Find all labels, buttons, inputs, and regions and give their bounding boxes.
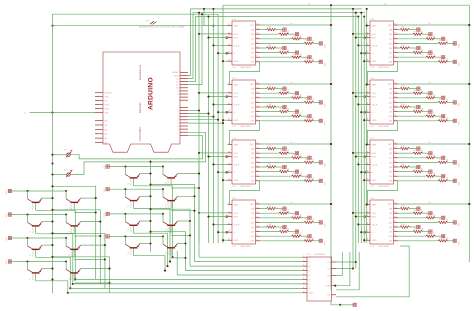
wire resistor to pad <box>410 208 417 210</box>
wire net RCK top bus <box>193 12 365 14</box>
resistor R74 value 220 <box>438 161 448 163</box>
wire T1 emitter to vertical <box>42 197 52 199</box>
resistor R78 value 220 <box>438 180 448 182</box>
svg-text:G: G <box>372 112 374 114</box>
wire S2 to arduino D0 <box>70 132 205 174</box>
resistor R13 value 220 <box>292 38 302 40</box>
wire IC8 QG to resistor <box>398 235 426 237</box>
pad LED2 <box>429 33 432 36</box>
wire resistor to pad <box>422 231 428 233</box>
svg-text:QB: QB <box>389 34 393 36</box>
wire IC6 VCC pin to rail <box>398 83 469 85</box>
pad LED3 <box>442 96 445 99</box>
transistor T15 <box>125 236 140 255</box>
resistor R46 value 220 <box>279 230 289 232</box>
transistor T16 <box>163 236 178 255</box>
wire IC6 QB to resistor <box>398 92 413 94</box>
svg-text:SCLR: SCLR <box>372 104 378 106</box>
svg-text:QH: QH <box>251 241 255 243</box>
svg-text:UNO R3/R2: UNO R3/R2 <box>138 127 142 141</box>
svg-text:BC337: BC337 <box>168 249 170 255</box>
wire resistor to pad <box>289 212 296 214</box>
wire resistor to pad <box>435 175 441 177</box>
wire IC2 QB to resistor <box>260 92 279 94</box>
wire T3 emitter to vertical <box>42 221 52 223</box>
svg-text:LED7: LED7 <box>104 213 106 218</box>
resistor R81 value 220 <box>400 207 410 209</box>
svg-text:QH: QH <box>389 62 393 64</box>
svg-text:SER: SER <box>372 205 377 207</box>
wire right bus vertical 4 <box>360 13 362 243</box>
wire IC3 QH to resistor <box>260 180 304 182</box>
wire T11 base run <box>134 209 171 262</box>
shift register IC1 right pins <box>250 24 260 64</box>
pad row input P1 <box>8 189 11 192</box>
pad LED2 <box>429 92 432 95</box>
pad LED4 <box>319 221 322 224</box>
wire T3 base run <box>36 234 73 284</box>
svg-text:QH*: QH* <box>388 84 392 86</box>
wire pad row 4 to transistors <box>12 261 66 263</box>
wire resistor to pad <box>410 166 417 168</box>
svg-text:G: G <box>372 232 374 234</box>
pad LED1 <box>283 147 286 150</box>
resistor R42 value 220 <box>279 212 289 214</box>
svg-text:BC337: BC337 <box>32 251 34 257</box>
resistor R23 value 220 <box>292 97 302 99</box>
wire right bus vertical 2 <box>355 13 357 269</box>
svg-text:BC337: BC337 <box>130 180 132 186</box>
resistor R48 value 220 <box>304 240 314 242</box>
wire IC3 QA to resistor <box>260 148 267 150</box>
shift register IC4 74HC595 body <box>232 200 256 244</box>
wire labelled alimentation net y25.7 <box>53 25 214 27</box>
wire IC3 VCC pin to rail <box>260 143 331 145</box>
resistor R12 value 220 <box>279 33 289 35</box>
svg-text:G: G <box>234 232 236 234</box>
svg-text:QB: QB <box>389 213 393 215</box>
pad row input P6 <box>106 188 109 191</box>
wire IC2 QC to resistor <box>260 97 292 99</box>
shift register IC5 74HC595 body <box>370 21 394 65</box>
svg-text:LED3: LED3 <box>6 237 8 242</box>
svg-text:SCLR: SCLR <box>372 164 378 166</box>
resistor R27 value 220 <box>292 115 302 117</box>
wire IC6 QG to resistor <box>398 115 426 117</box>
wire cascade IC3 QH* to IC4 SER <box>228 181 260 205</box>
svg-text:QH: QH <box>389 121 393 123</box>
svg-text:BC337: BC337 <box>71 251 73 257</box>
svg-text:RESET: RESET <box>105 93 113 95</box>
svg-text:Duemilanove: Duemilanove <box>138 64 142 80</box>
wire IC4 QE to resistor <box>260 226 267 228</box>
svg-text:QC: QC <box>389 39 393 41</box>
wire IC1 QH to resistor <box>260 61 304 63</box>
wire T11 emitter to vertical <box>140 195 151 197</box>
pad LED3 <box>442 37 445 40</box>
svg-text:BC337: BC337 <box>32 228 34 234</box>
wire IC1 QF to resistor <box>260 52 279 54</box>
svg-text:QH: QH <box>251 121 255 123</box>
pad LED7 <box>308 175 311 178</box>
resistor R51 value 220 <box>400 28 410 30</box>
junction bottom vertical main <box>51 278 53 280</box>
wire IC2 QE to resistor <box>260 106 267 108</box>
wire IC4 QG to resistor <box>260 235 292 237</box>
arduino U1 left pins lower analog <box>95 120 108 145</box>
wire IC8 VCC pin to rail <box>398 203 469 205</box>
wire resistor to pad <box>410 226 417 228</box>
wire row 5 upper line to bottom bus riser <box>151 162 200 257</box>
wire IC9 gnd pad <box>340 304 353 306</box>
wire resistor to pad <box>301 38 308 40</box>
resistor R22 value 220 <box>279 92 289 94</box>
svg-text:GND: GND <box>372 180 377 182</box>
wire left bus vertical G <box>217 14 219 243</box>
resistor R58 value 220 <box>438 61 448 63</box>
wire resistor to pad <box>410 29 417 31</box>
svg-text:SER: SER <box>234 26 239 28</box>
svg-text:74HC595N: 74HC595N <box>378 186 389 188</box>
wire resistor to pad <box>422 152 428 154</box>
svg-text:QD: QD <box>389 162 393 164</box>
svg-text:LED8: LED8 <box>104 235 106 240</box>
arduino U1 right pins upper <box>173 71 188 100</box>
svg-text:SCLR: SCLR <box>372 224 378 226</box>
svg-text:QC: QC <box>251 98 255 100</box>
pad LED3 <box>308 96 311 99</box>
svg-text:LED1: LED1 <box>6 190 8 195</box>
svg-text:QE: QE <box>251 107 255 109</box>
pad LED2 <box>295 92 298 95</box>
pad LED4 <box>319 42 322 45</box>
svg-text:QD: QD <box>389 222 393 224</box>
svg-text:SER: SER <box>234 85 239 87</box>
wire IC7 QG to resistor <box>398 175 426 177</box>
arduino U1 right pins lower <box>177 107 188 135</box>
svg-text:QA: QA <box>251 88 255 91</box>
svg-text:GND: GND <box>309 293 314 295</box>
wire T12 base run <box>171 210 194 212</box>
wire IC2 QF to resistor <box>260 111 279 113</box>
pad LED4 <box>453 161 456 164</box>
wire IC5 QD to resistor <box>398 42 438 44</box>
resistor R68 value 220 <box>438 120 448 122</box>
resistor R71 value 220 <box>400 147 410 149</box>
wire T4 base run <box>74 235 100 237</box>
wire IC4 QC to resistor <box>260 217 292 219</box>
svg-text:ALIMENTATION DE L’UC EN 5V PIN: ALIMENTATION DE L’UC EN 5V PIN 2 JAUNE <box>139 26 185 29</box>
resistor R15 value 220 <box>267 47 277 49</box>
svg-text:74HC595N: 74HC595N <box>240 246 251 248</box>
wire resistor to pad <box>422 171 428 173</box>
resistor R86 value 220 <box>413 230 423 232</box>
wire IC7 QH to resistor <box>398 180 438 182</box>
svg-text:BC337: BC337 <box>71 228 73 234</box>
transistor T12 <box>163 189 178 208</box>
wire cascade IC2 QH* to IC3 SER <box>228 121 260 145</box>
wire resistor to pad <box>448 240 453 242</box>
svg-text:QE: QE <box>251 48 255 50</box>
svg-text:LED5: LED5 <box>104 166 106 171</box>
pad LED5 <box>283 105 286 108</box>
resistor R41 value 220 <box>267 207 277 209</box>
wire IC3 QD to resistor <box>260 161 304 163</box>
wire resistor to pad <box>422 33 428 35</box>
wire resistor to pad <box>448 221 453 223</box>
wire arduino D7 to left bus <box>188 110 199 112</box>
resistor R32 value 220 <box>279 152 289 154</box>
wire resistor to pad <box>313 180 319 182</box>
wire S2 left <box>53 174 67 176</box>
svg-text:QD: QD <box>251 43 255 45</box>
wire resistor to pad <box>276 47 283 49</box>
svg-text:QH: QH <box>251 62 255 64</box>
wire pad row 2 to transistors <box>12 214 66 216</box>
svg-text:QE: QE <box>389 167 393 169</box>
shift register IC2 left pins <box>226 83 240 122</box>
svg-text:QG: QG <box>389 176 393 178</box>
wire IC1 QG to resistor <box>260 56 292 58</box>
wire resistor to pad <box>422 212 428 214</box>
svg-text:QH*: QH* <box>388 25 392 27</box>
wire left bus to IC pins <box>198 33 228 241</box>
wire resistor to pad <box>289 33 296 35</box>
svg-text:SER: SER <box>372 85 377 87</box>
shift register IC8 74HC595 body <box>370 200 394 244</box>
pad LED8 <box>319 239 322 242</box>
shift register IC5 left pins <box>364 24 378 63</box>
svg-text:QB: QB <box>251 153 255 155</box>
wire IC3 QB to resistor <box>260 152 279 154</box>
wire IC5 QE to resistor <box>398 47 400 49</box>
resistor R62 value 220 <box>413 92 423 94</box>
svg-text:QG: QG <box>251 57 255 59</box>
svg-text:LED4: LED4 <box>6 261 8 266</box>
wire T13 base run <box>134 233 168 266</box>
wire resistor to pad <box>301 175 308 177</box>
wire IC7 VCC pin to rail <box>398 143 469 145</box>
wire IC3 QG to resistor <box>260 175 292 177</box>
svg-text:RCK: RCK <box>234 38 239 40</box>
pad LED5 <box>417 225 420 228</box>
pad LED6 <box>295 51 298 54</box>
wire resistor to pad <box>276 208 283 210</box>
wire IC6 QE to resistor <box>398 106 400 108</box>
junction rail top <box>330 4 332 6</box>
wire IC9 right long nested 1 <box>330 286 332 290</box>
resistor R83 value 220 <box>426 217 436 219</box>
wire IC8 QB to resistor <box>398 212 413 214</box>
wire IC6 QD to resistor <box>398 101 438 103</box>
resistor R77 value 220 <box>426 175 436 177</box>
transistor T1 <box>28 191 43 210</box>
svg-text:GND: GND <box>105 108 110 110</box>
wire IC6 QA to resistor <box>398 88 400 90</box>
wire resistor to pad <box>410 88 417 90</box>
IC9 left pins <box>303 256 314 295</box>
svg-text:SCK: SCK <box>372 34 377 36</box>
svg-text:QA: QA <box>251 29 255 32</box>
wire pad row 8 to transistors <box>109 235 163 237</box>
wire left bus vertical SCLR <box>212 9 214 243</box>
svg-text:G: G <box>234 112 236 114</box>
pad LED4 <box>453 221 456 224</box>
wire +5V left rail vertical <box>330 5 332 286</box>
wire IC9 pin right 2 <box>336 268 353 270</box>
svg-text:BC337: BC337 <box>168 202 170 208</box>
pad LED1 <box>283 87 286 90</box>
pad LED5 <box>283 165 286 168</box>
wire IC1 QB to resistor <box>260 33 279 35</box>
wire resistor to pad <box>448 101 453 103</box>
resistor R53 value 220 <box>426 38 436 40</box>
pad row input P3 <box>8 236 11 239</box>
transistor T13 <box>125 214 140 233</box>
svg-text:QE: QE <box>251 227 255 229</box>
svg-text:GND: GND <box>372 240 377 242</box>
resistor R38 value 220 <box>304 180 314 182</box>
shift register IC2 74HC595 body <box>232 80 256 124</box>
wire right bus vertical 3 <box>357 17 359 244</box>
resistor R66 value 220 <box>413 110 423 112</box>
wire resistor to pad <box>435 115 441 117</box>
wire IC7 QC to resistor <box>398 157 426 159</box>
jumper JP1 <box>150 21 156 24</box>
wire left bus vertical SER to IC1 <box>204 9 228 26</box>
wire resistor to pad <box>435 235 441 237</box>
pad row input P8 <box>106 235 109 238</box>
transistor T2 <box>66 191 81 210</box>
shift register IC1 74HC595 body <box>232 21 256 65</box>
wire arduino D5 to left bus <box>188 116 213 118</box>
wire extra riser for bus 5 <box>176 251 178 275</box>
resistor R54 value 220 <box>438 42 448 44</box>
wire IC8 QC to resistor <box>398 217 426 219</box>
svg-text:GND: GND <box>234 120 239 122</box>
pad LED1 <box>417 28 420 31</box>
wire T16 emitter to riser <box>178 243 186 245</box>
svg-text:SCLR: SCLR <box>234 104 240 106</box>
wire row 8 upper line to bottom bus riser <box>151 232 186 271</box>
pad LED6 <box>295 110 298 113</box>
pad LED5 <box>417 165 420 168</box>
pad LED6 <box>295 230 298 233</box>
svg-text:QH: QH <box>389 241 393 243</box>
svg-text:QG: QG <box>251 176 255 178</box>
shift register IC5 right pins <box>388 24 398 64</box>
wire resistor to pad <box>276 88 283 90</box>
wire IC5 VCC pin to rail <box>398 24 469 26</box>
wire resistor to pad <box>289 52 296 54</box>
shift register IC7 74HC595 body <box>370 140 394 184</box>
svg-text:QG: QG <box>251 116 255 118</box>
wire pad row 3 to transistors <box>12 237 66 239</box>
wire T1 base run <box>36 210 76 279</box>
wire resistor to pad <box>301 97 308 99</box>
svg-text:74HC595N: 74HC595N <box>240 67 251 69</box>
pad LED2 <box>429 212 432 215</box>
svg-text:RCK: RCK <box>372 38 377 40</box>
wire T9 base run <box>134 186 173 257</box>
wire T5 base run <box>36 257 71 288</box>
resistor R44 value 220 <box>304 221 314 223</box>
pad LED8 <box>319 119 322 122</box>
transistor T4 <box>66 215 81 234</box>
svg-text:QC: QC <box>251 158 255 160</box>
resistor R14 value 220 <box>304 42 314 44</box>
svg-text:74HC595N: 74HC595N <box>378 246 389 248</box>
wire IC9 nested run mid <box>336 252 359 290</box>
resistor R25 value 220 <box>267 106 277 108</box>
wire row 2 upper line to bottom bus riser <box>53 210 101 284</box>
svg-text:QG: QG <box>389 236 393 238</box>
pad LED5 <box>283 225 286 228</box>
svg-text:LED2: LED2 <box>6 214 8 219</box>
shift register IC4 right pins <box>250 203 260 243</box>
wire T2 emitter to riser <box>81 197 96 199</box>
svg-text:QE: QE <box>389 48 393 50</box>
wire resistor to pad <box>422 52 428 54</box>
wire IC7 QF to resistor <box>398 171 413 173</box>
wire net +5V top rail <box>223 4 469 6</box>
svg-text:AREF: AREF <box>173 71 179 74</box>
wire gnd drop <box>331 301 340 305</box>
svg-text:GND: GND <box>234 180 239 182</box>
svg-text:BC337: BC337 <box>71 204 73 210</box>
transistor T10 <box>163 167 178 186</box>
wire resistor to pad <box>313 240 319 242</box>
svg-text:BC337: BC337 <box>71 275 73 281</box>
resistor R17 value 220 <box>292 56 302 58</box>
svg-text:QH*: QH* <box>388 204 392 206</box>
wire resistor to pad <box>301 56 308 58</box>
wire IC2 QA to resistor <box>260 88 267 90</box>
pad LED1 <box>283 28 286 31</box>
svg-text:SCK: SCK <box>234 213 239 215</box>
transistor T14 <box>163 214 178 233</box>
transistor T11 <box>125 189 140 208</box>
wire T5 emitter to vertical <box>42 244 52 246</box>
svg-text:BC337: BC337 <box>130 202 132 208</box>
pushbutton S2 <box>66 170 72 177</box>
wire IC2 VCC pin to rail <box>260 83 331 85</box>
wire row 6 upper line to bottom bus riser <box>151 185 195 262</box>
svg-text:VIN: VIN <box>105 112 109 114</box>
wire arduino pin8 up <box>188 14 202 84</box>
wire row 3 upper line to bottom bus riser <box>53 233 105 288</box>
pad LED8 <box>453 239 456 242</box>
wire resistor to pad <box>448 61 453 63</box>
svg-text:GND: GND <box>372 61 377 63</box>
svg-text:QD: QD <box>251 102 255 104</box>
svg-text:SER: SER <box>234 205 239 207</box>
svg-text:SCK: SCK <box>234 34 239 36</box>
svg-text:GND: GND <box>372 120 377 122</box>
resistor R28 value 220 <box>304 120 314 122</box>
svg-text:SCLR: SCLR <box>372 45 378 47</box>
pad LED4 <box>453 101 456 104</box>
svg-text:QC: QC <box>389 158 393 160</box>
svg-text:G: G <box>234 172 236 174</box>
wire IC8 QA to resistor <box>398 208 400 210</box>
resistor R57 value 220 <box>426 56 436 58</box>
wire IC3 QC to resistor <box>260 157 292 159</box>
wire IC3 QF to resistor <box>260 171 279 173</box>
wire IC9 pin right 1 <box>336 261 356 263</box>
pad LED3 <box>308 216 311 219</box>
wire resistor to pad <box>422 92 428 94</box>
